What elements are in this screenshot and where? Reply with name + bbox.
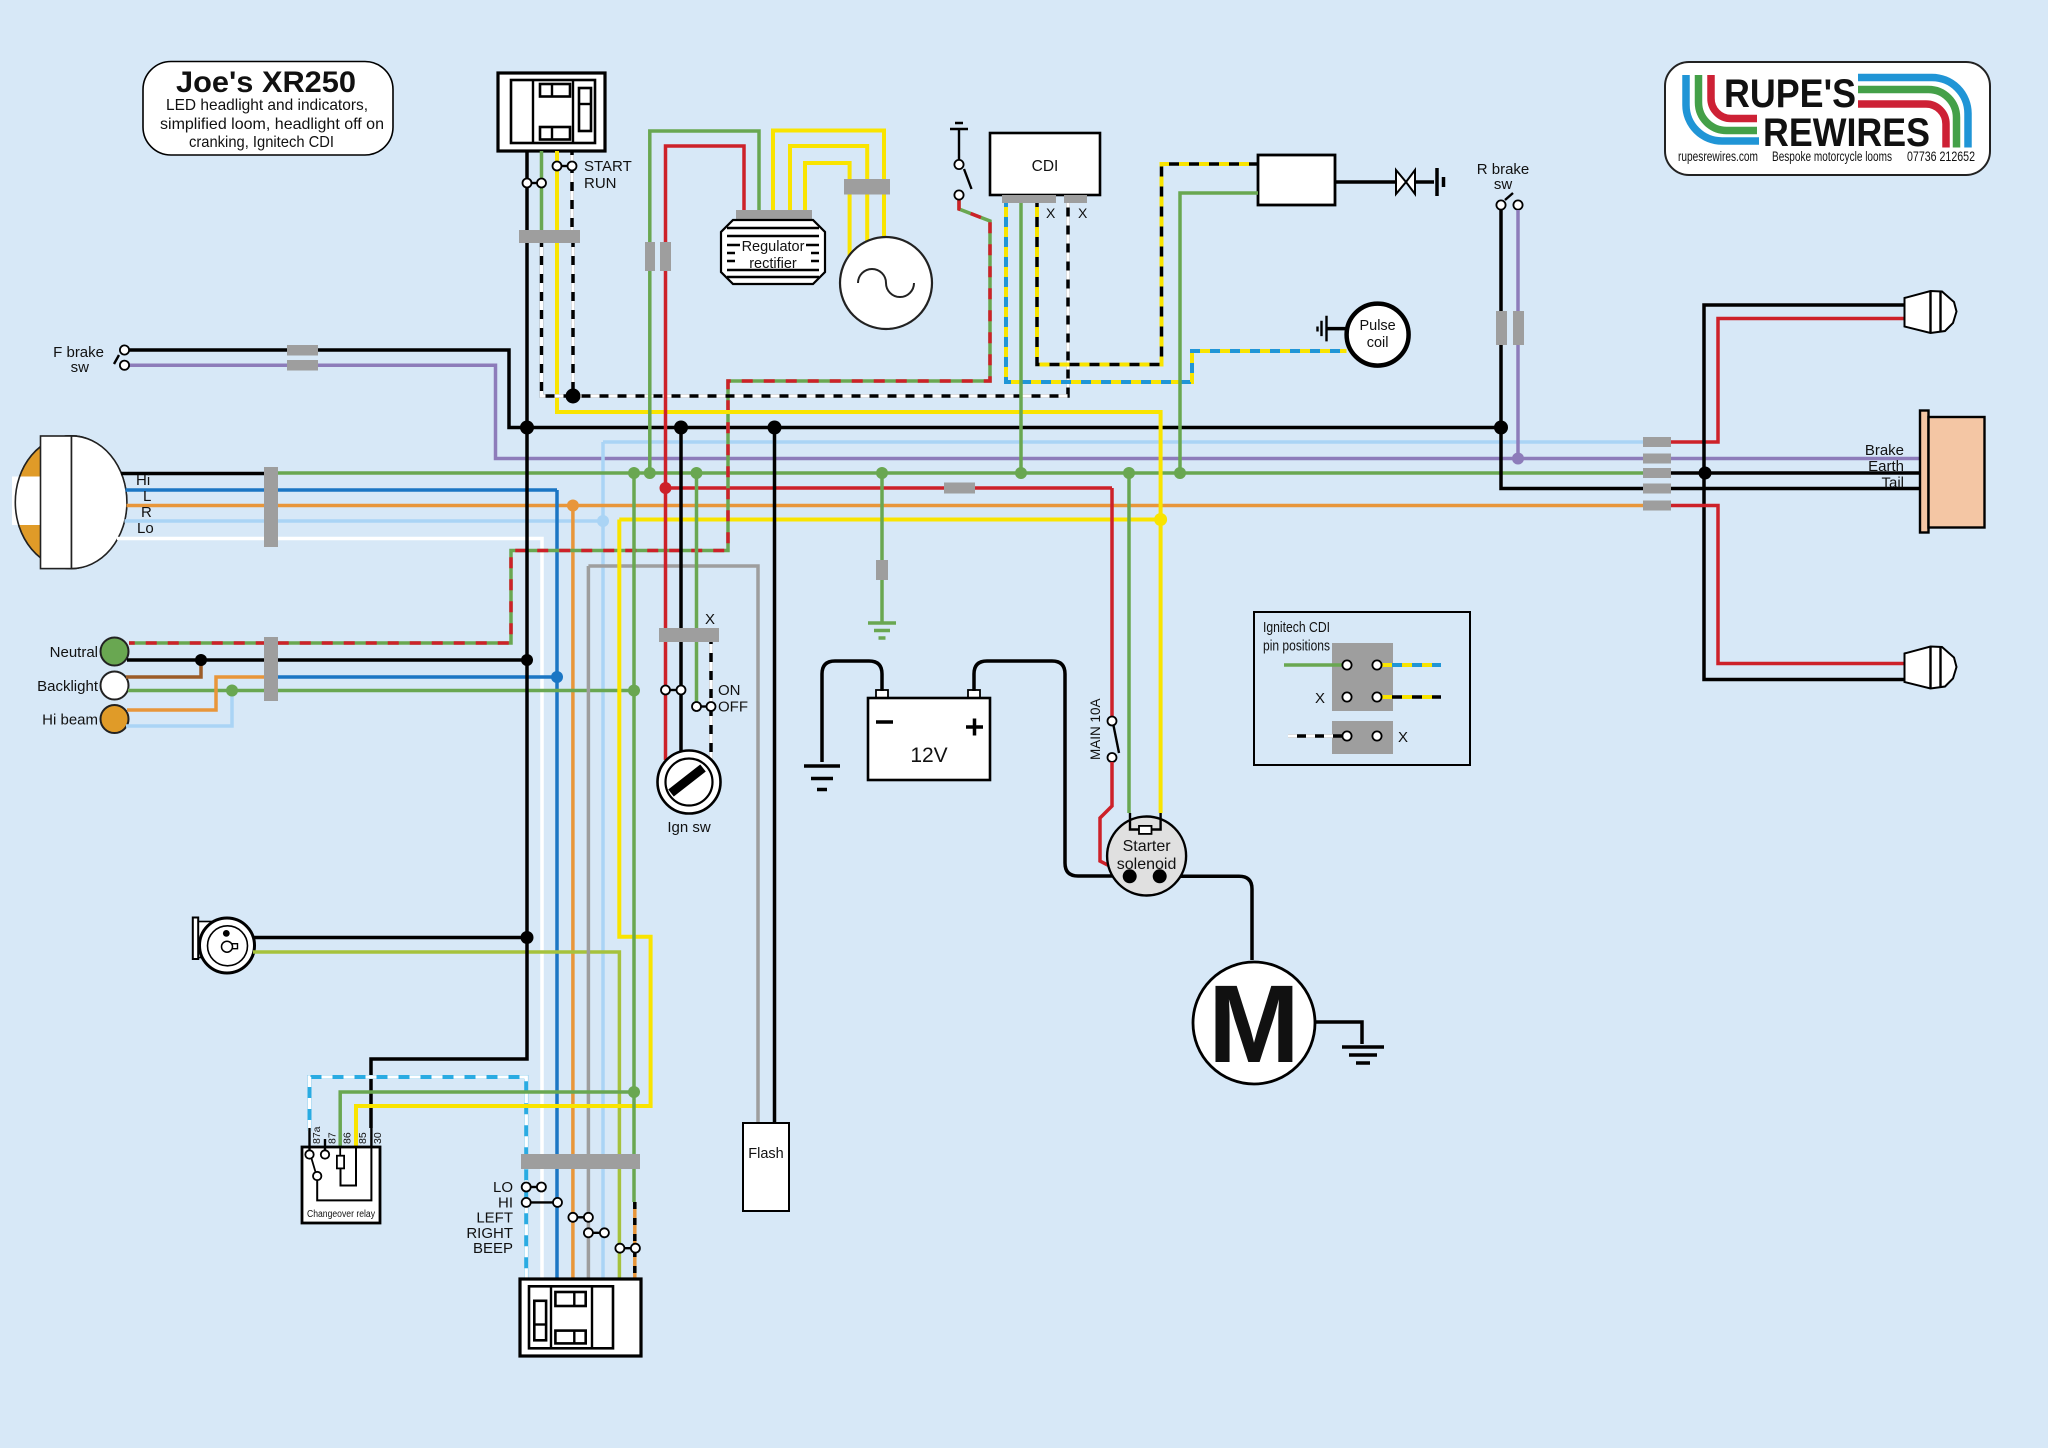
wire: orange R vertical xyxy=(571,506,575,1280)
svg-text:86: 86 xyxy=(342,1132,354,1144)
svg-text:85: 85 xyxy=(357,1132,369,1144)
svg-text:Earth: Earth xyxy=(1868,458,1904,475)
svg-text:CDI: CDI xyxy=(1032,158,1059,175)
wire: start black-white dashed xyxy=(570,151,574,243)
rear right indicator xyxy=(1905,647,1957,689)
switch contacts LEFT xyxy=(568,1213,593,1222)
svg-text:12V: 12V xyxy=(910,744,947,767)
svg-text:X: X xyxy=(1078,205,1088,221)
svg-text:OFF: OFF xyxy=(718,699,748,716)
svg-text:LEFT: LEFT xyxy=(476,1209,513,1226)
svg-text:87: 87 xyxy=(327,1132,339,1144)
ignition coil xyxy=(1258,155,1335,205)
connector: green earth pad xyxy=(876,560,888,580)
svg-text:Hi beam: Hi beam xyxy=(42,712,98,729)
node: purple junction xyxy=(1512,453,1524,465)
svg-text:Starter: Starter xyxy=(1123,838,1172,855)
svg-text:L: L xyxy=(143,488,151,505)
svg-text:R: R xyxy=(141,504,152,521)
wire: red to ign sw xyxy=(664,488,668,760)
flash unit xyxy=(743,1123,789,1211)
svg-text:RUPE'S: RUPE'S xyxy=(1724,72,1856,116)
battery xyxy=(868,690,990,780)
svg-text:solenoid: solenoid xyxy=(1117,856,1177,873)
wire: yellow B xyxy=(790,146,867,243)
svg-text:MAIN 10A: MAIN 10A xyxy=(1088,698,1103,760)
start/run switch housing xyxy=(498,73,605,151)
svg-text:X: X xyxy=(705,611,715,628)
node: red junction xyxy=(660,482,672,494)
svg-text:Bespoke motorcycle looms: Bespoke motorcycle looms xyxy=(1772,149,1892,164)
svg-text:ON: ON xyxy=(718,682,741,699)
wire: run green xyxy=(540,151,544,230)
svg-text:rectifier: rectifier xyxy=(749,256,797,272)
node: black junctions xyxy=(520,421,534,435)
cable: solenoid to motor xyxy=(1161,876,1252,960)
svg-text:rupesrewires.com: rupesrewires.com xyxy=(1678,149,1758,164)
ground: motor xyxy=(1315,1022,1384,1063)
wire: red supply bus xyxy=(666,486,1113,490)
Ignitech CDI legend box xyxy=(1254,612,1470,765)
starter solenoid xyxy=(1107,813,1186,896)
wire: CDI black-yellow dashed xyxy=(1037,164,1258,365)
switch contacts RIGHT xyxy=(584,1228,609,1237)
hi beam lamp xyxy=(101,705,129,733)
svg-text:Ignitech CDI: Ignitech CDI xyxy=(1263,620,1330,636)
wire: backlight brown earth xyxy=(126,660,201,677)
svg-text:Brake: Brake xyxy=(1865,442,1904,459)
wire: blue L vertical xyxy=(555,490,559,1279)
wire: headlight white xyxy=(117,539,542,1280)
cable: battery negative xyxy=(822,661,882,762)
svg-text:Lo: Lo xyxy=(137,520,154,537)
backlight lamp xyxy=(101,672,129,700)
connector: indicator band xyxy=(264,637,278,701)
ground: battery xyxy=(804,766,840,790)
wire: regulator green xyxy=(650,131,759,473)
connector: start/run bar xyxy=(519,230,580,243)
ground: pulse coil xyxy=(1318,316,1347,342)
node: yellow junction xyxy=(1154,513,1167,526)
ignition switch xyxy=(658,751,721,837)
wire: blue after connector xyxy=(278,675,557,679)
wire: relay green xyxy=(340,1092,634,1147)
wire: black to ign sw xyxy=(679,428,683,752)
spark plug xyxy=(1335,168,1444,196)
headlight xyxy=(12,436,127,569)
node: orange junction xyxy=(567,500,579,512)
wire: light blue bus xyxy=(603,442,1643,1279)
wire: black main vertical xyxy=(371,151,527,1128)
svg-text:30: 30 xyxy=(372,1132,384,1144)
wire: backlight green xyxy=(128,689,634,693)
AC generator xyxy=(840,237,932,329)
svg-text:RUN: RUN xyxy=(584,175,617,192)
wire: relay yellow xyxy=(356,520,651,1148)
svg-text:sw: sw xyxy=(1494,176,1513,193)
svg-text:START: START xyxy=(584,158,632,175)
run contacts xyxy=(523,175,617,192)
svg-text:cranking, Ignitech CDI: cranking, Ignitech CDI xyxy=(189,134,334,151)
wire: R brake purple xyxy=(1516,210,1520,459)
svg-text:Regulator: Regulator xyxy=(742,239,805,255)
wire: CDI blue-yellow dashed xyxy=(1006,203,1347,382)
wire: headlight Lo light blue xyxy=(125,519,604,523)
wire: beep black-orange dashed xyxy=(633,1202,637,1279)
neutral lamp xyxy=(101,638,129,666)
wire: gray switch vertical xyxy=(587,566,591,1279)
wire: front indicator red xyxy=(1671,319,1904,443)
wire: front indicator black xyxy=(1704,305,1904,680)
svg-text:coil: coil xyxy=(1367,335,1389,351)
wire: rear indicator red xyxy=(1671,506,1904,664)
wire: R brake black xyxy=(1499,210,1503,428)
svg-text:X: X xyxy=(1046,205,1056,221)
kill switch xyxy=(950,123,972,200)
wire: CDI green xyxy=(1019,203,1023,473)
node: green junctions xyxy=(628,467,640,479)
contacts ON xyxy=(661,682,741,699)
wire: green switch vertical xyxy=(632,473,636,1202)
svg-text:Ign sw: Ign sw xyxy=(667,819,711,836)
wire: neutral black xyxy=(127,658,527,662)
wire: headlight Hi black xyxy=(121,472,264,476)
wire: start yellow xyxy=(557,151,1161,813)
wire: horn lime xyxy=(253,952,619,1279)
connector: R brake pads xyxy=(1496,311,1507,345)
connector: red bus fuse xyxy=(944,483,975,494)
wire: red main fuse feed xyxy=(1110,488,1114,716)
svg-text:BEEP: BEEP xyxy=(473,1240,513,1257)
changeover relay cyan dashed wire xyxy=(310,1077,527,1279)
wire: purple brake bus xyxy=(125,365,1920,458)
wire: green earth bus xyxy=(278,471,1643,475)
wire: solenoid green xyxy=(1127,473,1131,813)
wire: kill green-red dashed xyxy=(129,200,990,644)
wire: black main bus xyxy=(125,350,1501,428)
connector: green/red pads xyxy=(645,242,655,271)
wire: gray to flash xyxy=(588,566,758,1123)
wire: hi beam orange xyxy=(127,677,264,710)
wire: headlight L blue xyxy=(126,488,558,492)
svg-text:Flash: Flash xyxy=(748,1146,783,1162)
wire: black tail feed xyxy=(1501,428,1920,489)
pulse coil xyxy=(1347,304,1409,366)
tail light xyxy=(1920,411,1985,533)
connector: headlight band xyxy=(264,467,278,547)
wire: black earth to tail xyxy=(1671,471,1920,475)
switch contacts HI xyxy=(522,1198,562,1207)
changeover relay xyxy=(302,1126,384,1223)
svg-text:Pulse: Pulse xyxy=(1359,318,1395,334)
contacts OFF xyxy=(692,699,748,716)
svg-text:Backlight: Backlight xyxy=(37,678,99,695)
X connector bar xyxy=(659,628,719,642)
wire: yellow bus xyxy=(619,518,1160,522)
svg-text:simplified loom, headlight off: simplified loom, headlight off on xyxy=(160,116,384,133)
wire: horn black xyxy=(253,936,527,940)
svg-text:M: M xyxy=(1208,963,1300,1086)
F brake switch xyxy=(53,344,129,376)
start contacts xyxy=(553,158,632,175)
wire: yellow C xyxy=(805,163,850,256)
svg-text:X: X xyxy=(1315,690,1325,707)
switch contacts BEEP xyxy=(615,1244,640,1253)
logo Rupe's Rewires xyxy=(1665,62,1990,175)
node: light blue junction xyxy=(597,515,609,527)
starter motor xyxy=(1193,962,1315,1086)
svg-text:Joe's XR250: Joe's XR250 xyxy=(176,66,356,99)
wire: green earth drop xyxy=(880,473,884,623)
wire: headlight R orange xyxy=(127,504,279,508)
CDI unit xyxy=(990,133,1100,195)
wire: yellow A xyxy=(773,131,884,238)
R brake switch xyxy=(1477,161,1530,210)
connector: tail pads xyxy=(1643,437,1671,447)
wire: regulator red xyxy=(666,146,745,488)
handlebar switch block xyxy=(520,1279,641,1356)
svg-text:07736 212652: 07736 212652 xyxy=(1907,149,1975,164)
regulator rectifier xyxy=(721,210,825,284)
svg-text:pin positions: pin positions xyxy=(1263,639,1330,655)
svg-text:Neutral: Neutral xyxy=(50,644,98,661)
horn xyxy=(193,918,255,974)
wire: red to solenoid xyxy=(1100,762,1129,876)
svg-text:Tail: Tail xyxy=(1881,475,1904,492)
svg-text:87a: 87a xyxy=(311,1126,323,1144)
CDI pads xyxy=(1002,195,1056,203)
svg-text:Changeover relay: Changeover relay xyxy=(307,1209,375,1220)
ground: green xyxy=(868,623,896,638)
node: blue junction xyxy=(551,671,563,683)
fuse MAIN 10A xyxy=(1088,698,1119,762)
svg-text:X: X xyxy=(1398,729,1408,746)
svg-text:LED headlight and indicators,: LED headlight and indicators, xyxy=(166,97,368,114)
wire: dashed bus from run xyxy=(542,203,1069,396)
cable: battery positive xyxy=(974,661,1128,876)
svg-text:Hi: Hi xyxy=(136,472,150,489)
connector: yellow triple pad xyxy=(844,179,890,195)
svg-text:sw: sw xyxy=(71,359,90,376)
wire: orange bus xyxy=(278,504,1643,508)
front right indicator xyxy=(1905,291,1957,333)
wire: black dashed ign xyxy=(709,640,713,759)
switch contacts LO xyxy=(522,1183,546,1192)
connector: handlebar band xyxy=(521,1154,640,1169)
title box xyxy=(143,62,393,156)
wire: black to flash xyxy=(773,428,777,1124)
wire: dashed from start xyxy=(571,243,575,396)
wire: coil green xyxy=(1180,193,1258,473)
connector: F brake pads xyxy=(287,345,318,356)
wire: green to off contact xyxy=(695,473,699,707)
wire: hi beam light blue earth xyxy=(126,691,232,727)
